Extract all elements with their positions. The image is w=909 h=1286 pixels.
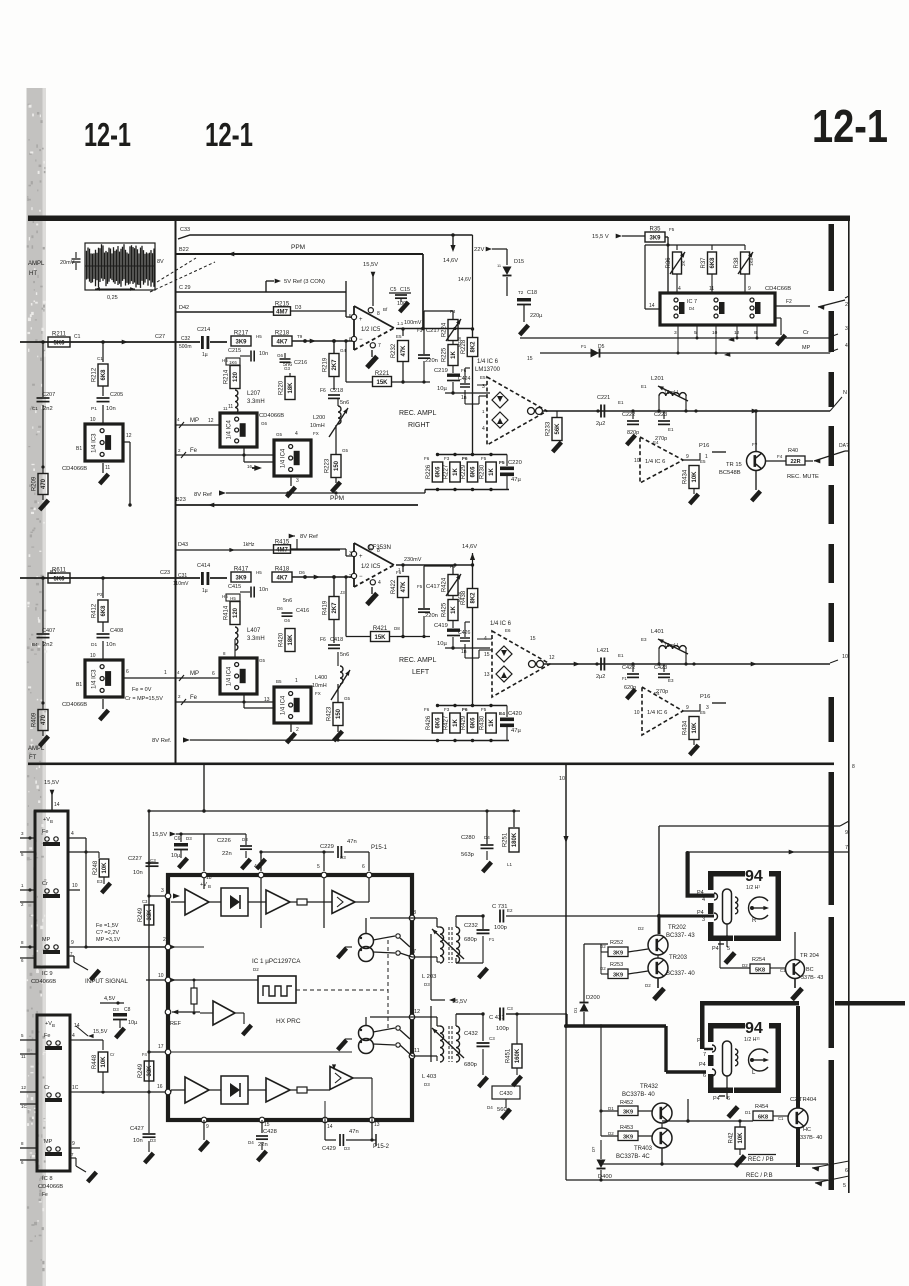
svg-text:18K: 18K [288, 634, 294, 646]
resistor R423 [327, 684, 351, 726]
svg-text:6: 6 [362, 864, 365, 870]
svg-text:R228: R228 [461, 339, 467, 354]
svg-text:5V Ref (3 CON): 5V Ref (3 CON) [284, 279, 325, 285]
switch IC3 a [62, 424, 123, 472]
pin13 stub [370, 1120, 379, 1142]
svg-text:8: 8 [852, 764, 855, 770]
head1 94 label [745, 868, 763, 891]
svg-text:C227: C227 [128, 856, 142, 862]
svg-text:C215: C215 [228, 348, 241, 354]
svg-text:14: 14 [327, 1124, 333, 1130]
divider top wire left [424, 704, 507, 713]
op-amp IC6 left diamond [484, 631, 550, 697]
diode box A [209, 888, 266, 916]
supply 15,5V opamp right [363, 262, 378, 306]
svg-text:D1: D1 [91, 642, 97, 648]
svg-text:680p: 680p [464, 1062, 477, 1068]
coupling r B [290, 1087, 330, 1093]
svg-text:E6: E6 [505, 628, 511, 633]
ic3a pin12 wire [123, 433, 132, 507]
svg-text:Fe: Fe [42, 829, 48, 835]
wire 9 horiz [659, 821, 849, 916]
svg-text:9: 9 [748, 286, 751, 292]
wire ic6 right out [560, 390, 847, 413]
resistor R449 [138, 1052, 154, 1081]
wire rail left drop [147, 811, 150, 1082]
svg-text:15,5V: 15,5V [152, 832, 167, 838]
switch IC block IC7 [660, 286, 791, 325]
capacitor C408 [90, 628, 123, 660]
svg-text:220n: 220n [425, 358, 438, 364]
op-amp 1/4 IC6b left [634, 687, 726, 735]
op-amp IC6 right diamond [482, 356, 547, 445]
svg-text:C18: C18 [527, 290, 537, 296]
feedback junction left [390, 563, 431, 638]
svg-text:12: 12 [21, 1085, 27, 1090]
svg-text:47µ: 47µ [511, 477, 521, 483]
svg-text:R438: R438 [461, 590, 467, 605]
svg-text:1n: 1n [461, 395, 467, 401]
svg-text:4: 4 [702, 897, 705, 903]
capacitor C15 [389, 287, 411, 307]
svg-text:F1: F1 [581, 344, 587, 349]
svg-text:2: 2 [178, 694, 181, 699]
svg-text:1C: 1C [72, 1085, 79, 1091]
switch IC9 block [35, 811, 68, 967]
svg-text:C229: C229 [320, 844, 334, 850]
svg-text:R434: R434 [683, 720, 689, 735]
svg-text:R429: R429 [461, 715, 467, 730]
capacitor C226 [217, 834, 252, 870]
svg-text:C408: C408 [110, 628, 123, 634]
svg-text:L1: L1 [507, 862, 513, 867]
resistor R434 left [683, 710, 707, 756]
feedback junction right [392, 327, 431, 383]
wire C29 [175, 285, 346, 292]
wire R40 to edge REC MUTE [787, 443, 849, 480]
svg-text:−: − [359, 574, 363, 580]
svg-text:5K6: 5K6 [53, 340, 65, 346]
wire C226 top [204, 833, 246, 835]
svg-text:22V: 22V [474, 247, 484, 253]
TR404 collector thick [796, 1006, 800, 1108]
svg-text:C 731: C 731 [492, 904, 507, 910]
svg-text:1/4 IC 6: 1/4 IC 6 [647, 710, 667, 716]
svg-text:C221: C221 [597, 395, 610, 401]
label REC AMPL LEFT [399, 657, 436, 676]
transistor TR403 [616, 1123, 672, 1160]
svg-text:C1: C1 [780, 968, 786, 973]
svg-text:10: 10 [712, 330, 718, 336]
svg-text:R422: R422 [391, 579, 397, 594]
svg-text:+: + [359, 317, 363, 323]
svg-text:94: 94 [745, 1020, 763, 1037]
svg-text:R425: R425 [442, 602, 448, 617]
svg-text:R223: R223 [325, 458, 331, 473]
svg-text:E5: E5 [700, 459, 706, 464]
wire L203 right to C731 [456, 914, 485, 927]
svg-text:RIGHT: RIGHT [408, 422, 431, 429]
label 1/4 IC6 LM13700 [475, 359, 501, 380]
ic7 pin labels top [677, 274, 751, 293]
wire pin17 [147, 1044, 168, 1054]
wire 8V Ref left ch [152, 737, 455, 744]
svg-text:C219: C219 [434, 368, 448, 374]
svg-text:1: 1 [21, 883, 24, 888]
svg-text:R221: R221 [375, 371, 390, 377]
capacitor C220 [499, 455, 522, 490]
wire pin5 riser [317, 850, 365, 871]
svg-text:C23: C23 [160, 570, 170, 576]
svg-text:100p: 100p [496, 1026, 509, 1032]
svg-text:Bf: Bf [383, 307, 388, 312]
wire pin10 inside [171, 979, 258, 984]
svg-text:N: N [843, 390, 847, 396]
svg-text:1kHz: 1kHz [243, 542, 255, 548]
label IC8 CD4066B [38, 1176, 63, 1198]
svg-text:DA?: DA? [839, 443, 849, 449]
svg-text:7: 7 [378, 343, 381, 349]
svg-text:L 203: L 203 [422, 974, 436, 980]
svg-text:1n: 1n [461, 649, 467, 655]
resistor R438 8K2 riser [461, 563, 478, 705]
svg-text:BC337B- 4C: BC337B- 4C [616, 1154, 650, 1160]
capacitor C424 left [458, 622, 492, 658]
resistor R225 [442, 336, 463, 365]
svg-text:Cr: Cr [803, 330, 809, 336]
head1 P4 5 ground [712, 944, 737, 965]
svg-text:10: 10 [842, 654, 848, 660]
svg-text:R448: R448 [92, 1054, 98, 1069]
svg-text:47K: 47K [401, 345, 407, 357]
svg-text:REC. MUTE: REC. MUTE [787, 474, 819, 480]
svg-text:3K9: 3K9 [649, 235, 661, 241]
resistor R249b [138, 899, 154, 925]
resistor R430 [479, 713, 496, 733]
svg-text:8: 8 [21, 1141, 24, 1146]
svg-text:6K8: 6K8 [710, 257, 716, 269]
svg-text:1µ: 1µ [202, 588, 208, 594]
svg-text:C205: C205 [110, 392, 123, 398]
svg-text:R249: R249 [138, 1063, 144, 1078]
svg-text:9: 9 [72, 1141, 75, 1147]
svg-text:D15: D15 [514, 259, 524, 265]
squarewave osc box [258, 976, 296, 1003]
svg-text:1/4 IC4: 1/4 IC4 [280, 448, 286, 468]
svg-text:220µ: 220µ [530, 313, 543, 319]
svg-text:120: 120 [233, 371, 239, 382]
svg-text:F6: F6 [424, 456, 430, 461]
inductor L407 [235, 627, 265, 658]
svg-text:R414: R414 [224, 605, 230, 620]
svg-text:H6: H6 [222, 358, 228, 363]
TR203 emitter ground [645, 978, 666, 1001]
ground opamp left [365, 587, 379, 606]
capacitor C432 [464, 1014, 495, 1088]
resistor R229 [461, 462, 478, 482]
svg-text:R217: R217 [234, 331, 249, 337]
svg-text:R253: R253 [610, 962, 623, 968]
svg-text:6: 6 [845, 1168, 848, 1174]
supply 15,5V ic8 [74, 1023, 108, 1038]
svg-text:4M7: 4M7 [276, 309, 288, 315]
svg-text:D4: D4 [487, 1105, 493, 1110]
head1 azimuth circle [749, 897, 769, 924]
capacitor C421 series [596, 648, 624, 680]
svg-text:5: 5 [21, 852, 24, 857]
svg-text:10n: 10n [259, 351, 268, 357]
svg-text:8K2: 8K2 [471, 592, 477, 604]
svg-text:11: 11 [105, 465, 110, 471]
svg-text:Fe = 0V: Fe = 0V [132, 687, 152, 693]
svg-text:10n: 10n [106, 406, 116, 412]
svg-text:R220: R220 [279, 380, 285, 395]
svg-text:7: 7 [70, 951, 73, 956]
svg-text:P16: P16 [699, 443, 709, 449]
svg-text:4M7: 4M7 [276, 547, 288, 553]
svg-text:7: 7 [413, 949, 416, 955]
svg-text:4: 4 [482, 426, 485, 432]
svg-text:C8: C8 [124, 1007, 131, 1013]
ic7 ground [775, 318, 787, 346]
resistor R35 [645, 227, 675, 243]
resistor R228 8K2 riser [461, 327, 478, 454]
svg-text:D6: D6 [299, 570, 305, 575]
capacitor C429 P15-2 [322, 1129, 390, 1152]
svg-text:D8: D8 [394, 626, 400, 631]
svg-text:E1: E1 [618, 653, 624, 658]
capacitor C415 [222, 584, 268, 601]
transistor TR202 [638, 925, 695, 955]
ground R223 [330, 478, 342, 493]
svg-text:D3: D3 [344, 1146, 350, 1151]
svg-text:33K: 33K [147, 1065, 153, 1077]
svg-text:180K: 180K [512, 832, 518, 847]
svg-text:L 403: L 403 [422, 1074, 436, 1080]
wire main input right ch [43, 334, 200, 344]
svg-text:3: 3 [21, 831, 24, 836]
svg-text:C420: C420 [508, 711, 522, 717]
svg-text:10µ: 10µ [437, 386, 447, 392]
wire pin2 inside [171, 946, 204, 948]
svg-text:10: 10 [90, 653, 96, 659]
svg-text:D4: D4 [248, 1140, 254, 1145]
wire D43 [175, 542, 340, 552]
svg-text:10K: 10K [692, 722, 698, 734]
wire R452 col [599, 1024, 618, 1136]
capacitor C8 [113, 1013, 138, 1039]
IC1 label [252, 958, 301, 972]
resistor R233 [546, 411, 564, 453]
svg-text:BC337- 43: BC337- 43 [666, 933, 695, 939]
label L403 [422, 1074, 436, 1087]
svg-text:C428: C428 [263, 1129, 277, 1135]
capacitor C229 P15-1 [255, 834, 388, 871]
resistor R409 [32, 701, 51, 747]
page number 12-1 middle [205, 116, 253, 153]
head2 coil [723, 1041, 738, 1099]
switch contacts B [373, 1026, 412, 1056]
svg-text:C216: C216 [294, 360, 307, 366]
wire R215 to opamp pin5 [290, 281, 354, 317]
svg-text:L207: L207 [247, 391, 261, 397]
svg-text:BC337- 40: BC337- 40 [666, 971, 695, 977]
switch IC4 d [264, 678, 311, 733]
svg-text:R215: R215 [275, 301, 290, 307]
svg-text:1K: 1K [489, 718, 495, 726]
svg-text:11: 11 [223, 406, 228, 411]
svg-text:D3: D3 [242, 837, 248, 842]
svg-text:12-1: 12-1 [812, 100, 888, 152]
resistor R448 [80, 1040, 115, 1090]
svg-text:5n6: 5n6 [340, 400, 349, 406]
label Fe Cr MP voltages [96, 923, 121, 943]
svg-text:10K: 10K [101, 1056, 107, 1068]
svg-text:2µ2: 2µ2 [596, 674, 605, 680]
svg-text:C3: C3 [507, 1006, 513, 1011]
wire TR cluster to R454 [662, 1099, 690, 1126]
svg-text:Fe: Fe [190, 695, 198, 701]
svg-text:MP =3,1V: MP =3,1V [96, 937, 121, 943]
svg-text:D43: D43 [178, 542, 188, 548]
wire C731 to head line [506, 914, 714, 934]
svg-text:TR403: TR403 [634, 1146, 653, 1152]
svg-text:C430: C430 [499, 1091, 512, 1097]
svg-text:G5: G5 [344, 696, 351, 701]
resistor R419 [323, 577, 346, 620]
waveform label 8V [157, 259, 164, 265]
capacitor C407 [32, 578, 55, 703]
inductor L400 variable [312, 652, 352, 700]
wire input from edge bottom [20, 576, 105, 580]
svg-text:10n: 10n [133, 870, 143, 876]
svg-text:6K6: 6K6 [436, 717, 442, 729]
amp A1 [171, 889, 209, 915]
svg-text:C419: C419 [434, 623, 448, 629]
svg-text:REF: REF [170, 1021, 182, 1027]
svg-text:IC 7: IC 7 [687, 299, 697, 305]
svg-text:R427: R427 [443, 715, 449, 730]
wire r415 to opamp5 [291, 549, 354, 556]
capacitor C420 left [499, 706, 522, 741]
ground opamp right [365, 350, 379, 369]
svg-text:22R: 22R [790, 459, 800, 465]
svg-text:C418: C418 [330, 637, 343, 643]
svg-text:D1: D1 [573, 1007, 578, 1013]
svg-text:2: 2 [349, 574, 352, 580]
svg-text:D1: D1 [608, 1106, 614, 1111]
svg-text:10n: 10n [133, 1138, 143, 1144]
svg-text:470: 470 [41, 478, 47, 489]
svg-text:E3: E3 [641, 637, 647, 642]
svg-text:12-1: 12-1 [84, 116, 131, 153]
svg-text:1K6: 1K6 [229, 360, 237, 365]
svg-text:F6: F6 [320, 637, 326, 643]
wire 10 drop [559, 765, 569, 1180]
waveform label 20mV [60, 252, 81, 270]
svg-text:MP: MP [42, 937, 51, 943]
head2 P4 6 ground [713, 1096, 740, 1119]
svg-text:16: 16 [157, 1084, 163, 1090]
svg-text:J3: J3 [340, 590, 345, 595]
svg-text:G5: G5 [342, 448, 349, 453]
resistor R418 [272, 567, 305, 583]
svg-text:H5: H5 [230, 596, 236, 601]
svg-text:2n2: 2n2 [43, 642, 53, 648]
svg-text:15: 15 [484, 652, 490, 658]
ic1 bottom wires [204, 1078, 372, 1120]
supply 15,5V mid arrow [152, 832, 204, 838]
svg-text:C223: C223 [654, 412, 667, 418]
svg-text:C32: C32 [181, 336, 190, 342]
label Fe 0V [125, 687, 163, 702]
svg-text:R452: R452 [620, 1100, 633, 1106]
svg-text:PPM: PPM [330, 495, 344, 502]
svg-text:4K7: 4K7 [276, 575, 288, 581]
op-amp 1/2 IC5 left [349, 543, 394, 587]
label 8V Ref upper left ch [289, 534, 318, 550]
waveform oscillogram box [85, 243, 155, 290]
wire pin17 inside [171, 1052, 352, 1056]
svg-text:F6: F6 [462, 707, 468, 713]
transformer sym B [359, 1017, 413, 1054]
svg-text:1/4 IC4: 1/4 IC4 [226, 666, 232, 686]
svg-text:Fe: Fe [44, 1033, 50, 1039]
thick feed head1 [686, 852, 715, 898]
svg-text:8: 8 [223, 651, 226, 656]
svg-text:F6: F6 [320, 388, 326, 394]
svg-text:Cr: Cr [42, 881, 48, 887]
junction 7 wire head1 [686, 851, 690, 855]
svg-text:6K8: 6K8 [101, 605, 107, 617]
svg-text:15: 15 [527, 356, 533, 362]
dashed link A [387, 940, 389, 1030]
TR404 [773, 1097, 822, 1141]
resistor R220 [279, 366, 296, 400]
svg-text:5: 5 [21, 1033, 24, 1038]
svg-text:IC 9: IC 9 [42, 971, 53, 977]
svg-text:R232: R232 [391, 343, 397, 358]
svg-text:BC: BC [806, 967, 814, 973]
resistor R222 [391, 334, 409, 382]
resistor R248 [86, 852, 112, 894]
section divider [28, 763, 834, 766]
svg-text:14,6V: 14,6V [458, 277, 472, 283]
diode D15 [497, 259, 524, 296]
supply 15,5V ic7 [592, 234, 645, 240]
ground C15 [398, 301, 410, 314]
svg-text:F3: F3 [417, 328, 423, 333]
switch IC4 b [274, 431, 311, 484]
svg-text:110mV: 110mV [173, 581, 189, 587]
svg-text:6: 6 [703, 1073, 706, 1079]
svg-text:4,5V: 4,5V [104, 996, 116, 1002]
resistor R425 [442, 591, 463, 620]
svg-text:H5: H5 [256, 570, 262, 575]
svg-text:FX: FX [315, 691, 321, 696]
ic8 pin wires right [70, 1033, 98, 1183]
svg-text:6: 6 [21, 1160, 24, 1165]
label 1/4 IC6 left [490, 621, 512, 633]
svg-text:3K9: 3K9 [623, 1135, 633, 1141]
svg-text:150: 150 [334, 460, 340, 471]
capacitor C217 [417, 311, 440, 384]
svg-text:14: 14 [54, 802, 60, 808]
svg-text:P4: P4 [712, 946, 719, 952]
svg-text:R219: R219 [323, 357, 329, 372]
svg-text:56K: 56K [555, 423, 561, 435]
ic7 pins bottom [674, 330, 757, 336]
